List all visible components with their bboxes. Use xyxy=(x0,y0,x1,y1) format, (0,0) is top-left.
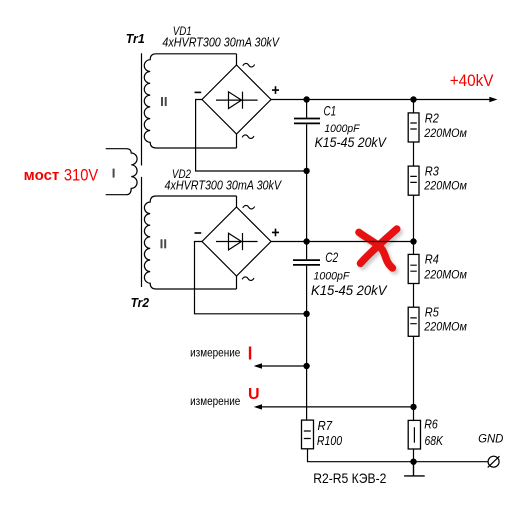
svg-text:R100: R100 xyxy=(317,433,343,448)
resistor R2 xyxy=(413,100,415,113)
plus sign VD2 xyxy=(272,229,279,237)
resistor R4 xyxy=(408,254,419,283)
wire measure I arrow line xyxy=(256,365,307,367)
svg-text:68K: 68K xyxy=(425,433,445,448)
resistor R5 xyxy=(413,284,415,308)
wire +40kV rail xyxy=(271,99,490,101)
wire measure U arrow line xyxy=(256,406,414,408)
transformer Tr1 secondary winding II xyxy=(144,54,236,148)
svg-text:Tr2: Tr2 xyxy=(131,295,150,310)
transformer primary winding I xyxy=(106,149,137,195)
wire C2 bottom node down to I node xyxy=(306,314,308,366)
wire VD2 plus to divider node (crossed) xyxy=(271,241,414,243)
arrowhead rail xyxy=(489,97,497,102)
svg-text:R2: R2 xyxy=(425,110,440,125)
svg-text:измерение: измерение xyxy=(190,346,240,360)
svg-text:R6: R6 xyxy=(424,416,438,431)
svg-text:220МОм: 220МОм xyxy=(423,179,466,193)
svg-text:Tr1: Tr1 xyxy=(126,31,145,46)
bridge rectifier VD1 diamond xyxy=(202,65,271,134)
svg-text:4xHVRT300 30mA 30kV: 4xHVRT300 30mA 30kV xyxy=(162,35,280,49)
svg-text:4xHVRT300 30mA 30kV: 4xHVRT300 30mA 30kV xyxy=(165,178,283,192)
svg-text:U: U xyxy=(248,386,260,403)
svg-text:C2: C2 xyxy=(325,249,338,265)
capacitor C1 xyxy=(306,100,308,172)
node C1- / VD1- xyxy=(303,168,309,174)
node rail / R2 xyxy=(410,96,416,102)
svg-text:R7: R7 xyxy=(318,418,333,433)
node ground rail / R6 bottom xyxy=(410,459,416,465)
svg-text:+40kV: +40kV xyxy=(450,71,494,90)
minus sign VD2 xyxy=(195,232,202,234)
transformer Tr2 secondary winding II xyxy=(144,196,236,289)
red X cross-out mark xyxy=(359,229,399,271)
resistor R7 xyxy=(302,420,314,449)
node R3/R4 xyxy=(410,238,416,244)
svg-text:310V: 310V xyxy=(64,165,99,184)
tilde VD2 top xyxy=(243,205,255,209)
plus sign VD1 xyxy=(272,86,279,94)
node U measure / R6 top xyxy=(410,404,416,410)
winding label I (primary) xyxy=(113,169,115,178)
minus sign VD1 xyxy=(195,92,202,94)
wire R5 bottom to U node and R6 xyxy=(413,336,415,420)
wire VD1 minus to C1 bottom node xyxy=(196,100,307,172)
GND terminal circle xyxy=(488,456,499,467)
svg-text:R5: R5 xyxy=(425,304,440,319)
wire VD2 minus to C2 bottom node xyxy=(195,242,307,314)
wire VD2 top corner to coil lead xyxy=(236,196,238,207)
node VD1+ / C1 xyxy=(303,96,309,102)
svg-text:измерение: измерение xyxy=(190,394,240,408)
resistor R3 xyxy=(413,142,415,166)
svg-text:R4: R4 xyxy=(425,252,439,267)
wire R7 bottom to ground rail xyxy=(308,449,489,462)
tilde VD2 bottom xyxy=(242,277,254,281)
wire R3 to R4 through node xyxy=(413,195,415,254)
wire I node down to R7 xyxy=(306,366,308,420)
diode inside VD2 xyxy=(216,233,258,250)
node C2- / VD2- xyxy=(303,311,309,317)
ground symbol xyxy=(404,462,425,476)
arrowhead U xyxy=(254,404,262,409)
tilde VD1 top xyxy=(243,63,255,67)
svg-text:C1: C1 xyxy=(324,103,337,119)
wire R6 bottom to ground rail xyxy=(413,449,415,462)
svg-text:I: I xyxy=(248,343,253,363)
wire VD1 bottom corner to coil lead xyxy=(236,134,238,148)
winding label II (Tr1) xyxy=(161,97,167,106)
transformer core xyxy=(141,53,143,287)
tilde VD1 bottom xyxy=(242,135,254,139)
svg-text:220МОм: 220МОм xyxy=(423,126,466,140)
arrowhead I xyxy=(254,363,262,368)
svg-text:1000pF: 1000pF xyxy=(324,123,360,135)
resistor R6 xyxy=(408,420,420,449)
bridge rectifier VD2 diamond xyxy=(202,207,271,276)
svg-text:мост: мост xyxy=(24,167,60,184)
svg-text:220МОм: 220МОм xyxy=(423,267,466,281)
svg-text:K15-45 20kV: K15-45 20kV xyxy=(315,134,388,150)
wire VD1 top corner to coil lead xyxy=(236,54,238,65)
node VD2+ / C2 xyxy=(303,238,309,244)
svg-text:220МОм: 220МОм xyxy=(423,320,466,334)
capacitor C2 xyxy=(306,242,308,314)
svg-text:1000pF: 1000pF xyxy=(314,271,351,283)
wire middle node to VD2 plus xyxy=(306,171,308,242)
svg-text:R2-R5 КЭВ-2: R2-R5 КЭВ-2 xyxy=(313,470,386,486)
node I measure xyxy=(303,363,309,369)
wire VD2 bottom corner to coil lead xyxy=(236,276,238,289)
svg-text:GND: GND xyxy=(478,432,504,446)
diode inside VD1 xyxy=(216,92,258,109)
svg-text:K15-45 20kV: K15-45 20kV xyxy=(311,282,388,298)
svg-text:R3: R3 xyxy=(425,163,440,178)
winding label II (Tr2) xyxy=(161,239,167,248)
